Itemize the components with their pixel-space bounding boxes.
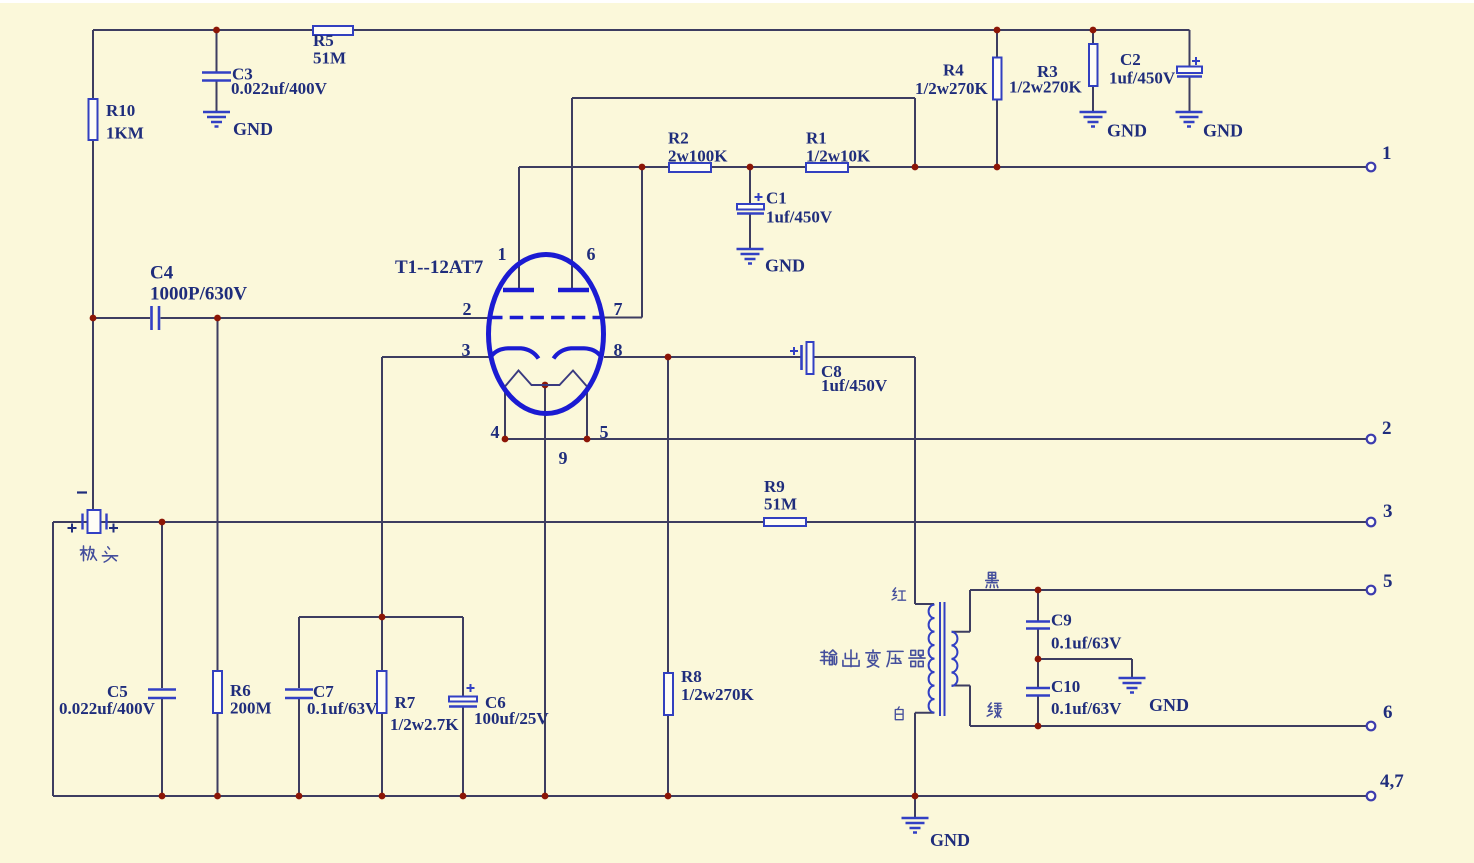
wire transformer secondary top lead: [952, 590, 971, 632]
tube plate anode left: [503, 288, 534, 293]
wire C6 branch: [462, 617, 464, 796]
tube plate anode right: [558, 288, 589, 293]
terminal 4,7: [1367, 792, 1376, 801]
svg-text:GND: GND: [765, 256, 805, 276]
terminal 2: [1367, 435, 1376, 444]
svg-text:3: 3: [462, 340, 471, 360]
transformer primary winding: [929, 605, 935, 713]
wire pin4 lead: [504, 386, 506, 439]
text shu output transformer 1: [820, 650, 836, 665]
text chu output transformer 2: [843, 650, 859, 667]
svg-text:R4: R4: [943, 61, 964, 80]
junction pin8 R8: [665, 354, 672, 361]
wire pin5 lead: [586, 386, 588, 439]
capacitor C7: [285, 690, 313, 699]
text ji pickup head 1: [80, 546, 96, 561]
svg-text:1/2w2.7K: 1/2w2.7K: [390, 715, 459, 734]
text hei black lead label: [986, 572, 999, 587]
junction pickup C5: [159, 519, 166, 526]
wire pin3 R7 vertical: [381, 357, 383, 796]
svg-text:R5: R5: [313, 31, 334, 50]
junction C9 C10 mid: [1035, 656, 1042, 663]
capacitor C8: [800, 345, 803, 370]
wire transformer primary bottom lead: [915, 713, 934, 796]
wire pin7 horizontal: [604, 317, 642, 319]
capacitor C1: [737, 204, 764, 210]
svg-text:C2: C2: [1120, 50, 1141, 69]
svg-text:R9: R9: [764, 477, 785, 496]
wire C9 C10 ground link: [1038, 659, 1132, 678]
svg-text:51M: 51M: [764, 495, 797, 514]
svg-text:1: 1: [1382, 143, 1392, 164]
svg-text:1/2w10K: 1/2w10K: [806, 147, 871, 166]
wire pin8 line with C8 gap: [604, 356, 915, 358]
junction bottom R7: [379, 793, 386, 800]
wire R3 branch vertical: [1092, 30, 1094, 112]
svg-text:0.022uf/400V: 0.022uf/400V: [59, 699, 156, 718]
resistor R6: [213, 671, 222, 713]
svg-text:1/2w270K: 1/2w270K: [681, 685, 755, 704]
tube grid dashed: [489, 316, 603, 319]
resistor R9: [764, 518, 806, 526]
wire pin9 center tap vertical: [544, 385, 546, 796]
pickup minus mark: [77, 491, 87, 493]
ground under C2: [1176, 112, 1203, 127]
svg-text:GND: GND: [233, 119, 273, 139]
junction bracket R7: [379, 614, 386, 621]
wire pin6 lead vertical: [571, 98, 573, 288]
resistor R5: [313, 26, 353, 35]
svg-text:R10: R10: [106, 101, 135, 120]
svg-text:200M: 200M: [230, 699, 272, 718]
transformer secondary winding: [952, 632, 958, 686]
junction pin6 route: [912, 164, 919, 171]
junction pin7 riser: [639, 164, 646, 171]
svg-text:1uf/450V: 1uf/450V: [1109, 69, 1176, 88]
svg-text:5: 5: [1383, 571, 1393, 592]
svg-text:GND: GND: [1149, 695, 1189, 715]
terminal 3: [1367, 518, 1376, 527]
svg-text:R2: R2: [668, 129, 689, 148]
ground under C1: [737, 249, 764, 264]
ground bottom center: [902, 818, 929, 833]
svg-text:2: 2: [1382, 418, 1392, 439]
svg-text:R8: R8: [681, 667, 702, 686]
svg-text:1/2w270K: 1/2w270K: [915, 79, 989, 98]
wire heater line to terminal 2: [505, 438, 1366, 440]
text bian output transformer 3: [866, 650, 880, 667]
ground under C9 C10: [1119, 678, 1146, 693]
capacitor C10: [1026, 688, 1050, 696]
resistor R2: [669, 163, 711, 172]
terminal 6: [1367, 722, 1376, 731]
svg-text:7: 7: [614, 299, 623, 319]
svg-text:C10: C10: [1051, 677, 1080, 696]
wire R6 branch vertical: [217, 318, 219, 796]
wire cathode bracket: [299, 616, 463, 618]
svg-text:8: 8: [614, 340, 623, 360]
wire pin6 route drop: [914, 98, 916, 167]
wire transformer secondary bottom lead: [952, 686, 971, 727]
junction heater center tap: [542, 382, 549, 389]
wire plate supply line y=167: [519, 166, 1366, 168]
resistor R8: [664, 673, 673, 715]
svg-text:0.1uf/63V: 0.1uf/63V: [307, 699, 378, 718]
svg-text:C4: C4: [150, 263, 174, 284]
transformer core: [940, 602, 945, 716]
wire R4 branch vertical: [996, 30, 998, 167]
text qi output transformer 5: [909, 650, 925, 666]
svg-text:0.1uf/63V: 0.1uf/63V: [1051, 699, 1122, 718]
svg-text:51M: 51M: [313, 49, 346, 68]
resistor R10: [89, 99, 98, 140]
wire C1 leads: [749, 167, 751, 249]
svg-text:GND: GND: [1107, 121, 1147, 141]
capacitor C2: [1177, 67, 1202, 74]
pickup head element: [83, 510, 107, 533]
svg-text:C9: C9: [1051, 611, 1072, 630]
junction C4 left: [90, 315, 97, 322]
capacitor C6: [449, 697, 477, 702]
junction bottom R6: [214, 793, 221, 800]
tube heater filament: [505, 371, 587, 387]
wire bottom rail: [53, 795, 1366, 797]
capacitor C5: [148, 690, 176, 699]
svg-text:0.1uf/63V: 0.1uf/63V: [1051, 634, 1122, 653]
svg-text:3: 3: [1383, 501, 1393, 522]
pickup plus marks: [68, 524, 119, 533]
resistor R3: [1089, 44, 1098, 86]
wire C9 C10 chain: [1037, 590, 1039, 726]
wire grid line pin2 with C4 gap: [93, 317, 489, 319]
wire bottom ground lead: [914, 796, 916, 818]
wire left drop: [52, 522, 54, 796]
wire C7 branch: [298, 617, 300, 796]
svg-text:2w100K: 2w100K: [668, 147, 728, 166]
ground under R3: [1080, 112, 1107, 127]
wire pin1 lead: [518, 167, 520, 288]
tube cathode left: [491, 348, 539, 358]
junction bottom pin9: [542, 793, 549, 800]
junction bottom C7: [296, 793, 303, 800]
capacitor C3: [202, 73, 231, 81]
svg-text:1/2w270K: 1/2w270K: [1009, 78, 1083, 97]
tube T1 12AT7 envelope: [489, 255, 604, 414]
resistor R4: [993, 58, 1002, 100]
text bai white lead label: [895, 707, 903, 720]
junction bottom R8: [665, 793, 672, 800]
svg-text:1uf/450V: 1uf/450V: [821, 376, 888, 395]
svg-text:2: 2: [463, 299, 472, 319]
junction C4 right R6: [214, 315, 221, 322]
wire line to terminal 6: [970, 725, 1366, 727]
svg-text:4: 4: [491, 422, 500, 442]
capacitor C9: [1026, 622, 1050, 629]
svg-text:C1: C1: [766, 189, 787, 208]
svg-text:100uf/25V: 100uf/25V: [474, 709, 549, 728]
text ya output transformer 4: [887, 651, 903, 666]
resistor R1: [806, 163, 848, 172]
junction pin4: [502, 436, 509, 443]
wire C3 leads: [216, 30, 218, 112]
svg-text:1uf/450V: 1uf/450V: [766, 208, 833, 227]
svg-text:GND: GND: [1203, 121, 1243, 141]
wire R10 branch vertical: [92, 30, 94, 511]
wire transformer primary top lead: [915, 603, 934, 605]
text lv green lead label: [987, 703, 1002, 718]
junction R4 bottom: [994, 164, 1001, 171]
svg-text:5: 5: [600, 422, 609, 442]
wire line to terminal 5: [970, 589, 1366, 591]
svg-text:T1--12AT7: T1--12AT7: [395, 257, 484, 278]
wire top rail: [93, 29, 1190, 31]
junction C10 bottom: [1035, 723, 1042, 730]
svg-text:9: 9: [559, 448, 568, 468]
wire R8 branch vertical: [667, 357, 669, 796]
svg-text:GND: GND: [930, 830, 970, 850]
svg-text:1KM: 1KM: [106, 124, 144, 143]
svg-text:6: 6: [587, 244, 596, 264]
svg-text:R6: R6: [230, 681, 251, 700]
wire C5 branch: [161, 522, 163, 796]
svg-text:R1: R1: [806, 129, 827, 148]
junction R3 top: [1090, 27, 1097, 34]
svg-text:0.022uf/400V: 0.022uf/400V: [231, 79, 328, 98]
text hong red lead label: [892, 588, 906, 600]
wire pin3 horizontal: [382, 356, 489, 358]
capacitor C4: [152, 306, 160, 330]
junction pin5: [584, 436, 591, 443]
svg-text:1000P/630V: 1000P/630V: [150, 284, 247, 305]
svg-text:4,7: 4,7: [1380, 771, 1404, 792]
wire C8 to transformer vertical: [914, 357, 916, 604]
terminal 1: [1367, 163, 1376, 172]
junction C1: [747, 164, 754, 171]
junction bottom transformer: [912, 793, 919, 800]
wire C2 drop from rail: [1189, 30, 1191, 112]
junction secondary top C9: [1035, 587, 1042, 594]
resistor R7: [377, 671, 387, 713]
wire pin6 route horizontal: [572, 97, 915, 99]
junction bottom C5: [159, 793, 166, 800]
junction bottom C6: [460, 793, 467, 800]
junction C3 top: [213, 27, 220, 34]
junction R4 top: [994, 27, 1001, 34]
wire pin7 riser: [641, 167, 643, 318]
terminal 5: [1367, 586, 1376, 595]
ground under C3: [203, 112, 230, 127]
text tou pickup head 2: [102, 547, 117, 562]
svg-text:R7: R7: [395, 693, 416, 712]
svg-text:6: 6: [1383, 702, 1393, 723]
wire pickup line to terminal 3: [53, 521, 1366, 523]
tube cathode right: [554, 348, 602, 358]
svg-text:1: 1: [498, 244, 507, 264]
